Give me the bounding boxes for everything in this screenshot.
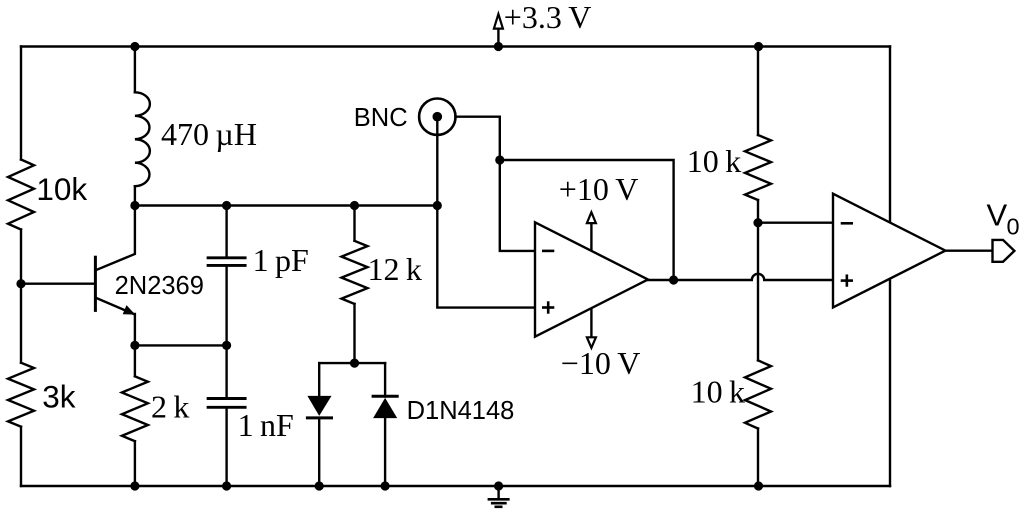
node dot U1 output	[669, 275, 678, 284]
svg-text:3k: 3k	[42, 379, 76, 415]
op-amp U2 plus sign	[842, 276, 852, 286]
wire BNC center down to op-amp U1 plus input	[437, 117, 535, 308]
wire 1pF to node	[225, 266, 227, 346]
svg-text:−10 V: −10 V	[561, 345, 641, 381]
resistor R5 10k upper	[745, 135, 771, 200]
wire left rail middle	[20, 230, 22, 363]
svg-text:470 µH: 470 µH	[161, 116, 257, 152]
capacitor C1 1pF	[208, 258, 245, 266]
node dot bottom rail R6	[754, 481, 763, 490]
diode D1 triangle	[307, 396, 331, 416]
diode D1 cathode bar	[307, 416, 331, 419]
capacitor C2 1nF	[208, 399, 245, 408]
resistor R3 2k	[122, 376, 148, 441]
wire 1nF bottom lead	[225, 408, 227, 486]
wire base of Q1	[21, 283, 94, 285]
node dot top rail at inductor	[130, 42, 139, 51]
wire diode top row	[319, 362, 385, 364]
node dot diode row	[350, 359, 359, 368]
svg-text:2N2369: 2N2369	[115, 272, 204, 300]
wire left rail upper	[20, 47, 22, 160]
power +3.3V stem	[497, 29, 499, 47]
wire right rail	[889, 47, 891, 487]
inductor L1 470uH	[135, 92, 150, 186]
node dot base wire	[16, 279, 25, 288]
wire U2 output	[945, 249, 992, 251]
output terminal V0	[993, 240, 1015, 262]
resistor R6 10k lower	[745, 360, 771, 428]
wire diode D2 bottom lead	[384, 418, 386, 486]
wire R5 to node	[757, 200, 759, 223]
wire 1pF top lead	[225, 206, 227, 258]
transistor Q1 emitter arrow	[123, 305, 136, 315]
node dot bottom rail ground	[494, 481, 503, 490]
transistor Q1 2N2369 base bar	[94, 257, 97, 310]
op-amp U1 plus sign	[543, 303, 553, 313]
resistor R1 10k left	[8, 160, 34, 230]
op-amp U1 triangle	[535, 222, 648, 336]
wire 12k bottom lead	[353, 304, 355, 363]
node dot emitter row left	[130, 341, 139, 350]
wire 10k upper lead	[757, 47, 759, 136]
node dot bottom rail D1	[315, 481, 324, 490]
svg-text:1 pF: 1 pF	[253, 242, 309, 278]
node dot bottom rail 1nF	[222, 481, 231, 490]
ground stub	[497, 486, 499, 499]
svg-text:V: V	[987, 198, 1008, 233]
svg-text:12 k: 12 k	[368, 251, 422, 287]
wire bottom rail	[21, 485, 890, 487]
wire left rail lower	[20, 427, 22, 486]
node dot mid row collector	[130, 201, 139, 210]
wire BNC shield to node	[456, 117, 536, 251]
node dot top rail at R5	[754, 42, 763, 51]
power +3.3V arrowhead	[494, 14, 503, 29]
node dot BNC shield tee	[495, 155, 504, 164]
wire 2k bottom lead	[134, 441, 136, 486]
diode D2 triangle	[373, 398, 397, 418]
svg-text:+3.3 V: +3.3 V	[504, 0, 592, 35]
transistor Q1 emitter lead	[95, 298, 134, 346]
svg-text:2 k: 2 k	[151, 388, 189, 424]
wire mid node row	[135, 204, 437, 206]
wire inductor top lead	[134, 47, 136, 93]
diode D2 cathode bar	[373, 395, 397, 398]
svg-text:10 k: 10 k	[687, 143, 741, 179]
wire 12k top lead	[353, 206, 355, 241]
svg-text:10k: 10k	[36, 171, 87, 207]
resistor R4 12k	[342, 241, 368, 304]
op-amp U2 minus sign	[842, 222, 852, 225]
wire diode D1 bottom lead	[318, 418, 320, 486]
op-amp U2 triangle	[833, 194, 945, 308]
op-amp U1 supply arrow up head	[587, 212, 596, 223]
svg-text:1 nF: 1 nF	[238, 407, 294, 443]
node dot divider mid	[753, 218, 762, 227]
svg-text:0: 0	[1007, 214, 1020, 240]
svg-text:D1N4148: D1N4148	[407, 397, 515, 425]
node dot mid row BNC	[433, 201, 442, 210]
transistor Q1 collector lead	[95, 206, 134, 271]
node dot mid row 12k	[350, 201, 359, 210]
BNC connector outer circle	[419, 99, 455, 135]
resistor R2 3k	[8, 363, 34, 427]
wire feedback U1	[500, 160, 674, 280]
op-amp U1 supply arrow down head	[587, 337, 596, 348]
node dot top rail at +3.3V	[494, 42, 503, 51]
node dot emitter row right	[222, 341, 231, 350]
node dot bottom rail D2	[381, 481, 390, 490]
wire diode D2 top lead	[384, 363, 386, 396]
svg-text:10 k: 10 k	[691, 374, 745, 410]
node dot bottom rail 2k	[130, 481, 139, 490]
op-amp U1 minus sign	[543, 250, 553, 253]
BNC center pin dot	[433, 112, 443, 122]
op-amp U1 supply arrow down stem	[590, 310, 592, 337]
wire U1 output row with hop	[648, 274, 833, 280]
svg-text:BNC: BNC	[354, 104, 408, 132]
svg-text:+10 V: +10 V	[559, 171, 639, 207]
op-amp U1 supply arrow up stem	[590, 223, 592, 251]
wire divider vertical	[757, 223, 759, 361]
wire top rail	[21, 45, 890, 47]
wire U2 minus input	[758, 221, 833, 223]
node dot mid row 1pF	[222, 201, 231, 210]
wire 1nF top lead	[225, 345, 227, 398]
wire inductor bottom lead	[134, 186, 136, 205]
wire diode D1 anode lead	[318, 363, 320, 396]
wire emitter row	[135, 344, 227, 346]
wire 2k top lead	[134, 345, 136, 376]
ground bars	[489, 499, 508, 507]
wire R6 bottom lead	[757, 429, 759, 487]
